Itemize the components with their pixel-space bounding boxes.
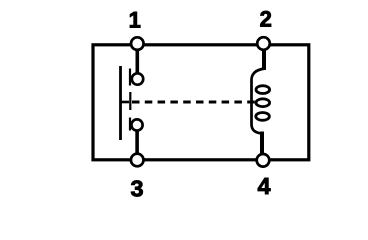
svg-text:3: 3 bbox=[130, 176, 143, 202]
svg-text:1: 1 bbox=[129, 7, 141, 32]
svg-text:2: 2 bbox=[260, 7, 272, 32]
svg-text:4: 4 bbox=[257, 173, 270, 199]
